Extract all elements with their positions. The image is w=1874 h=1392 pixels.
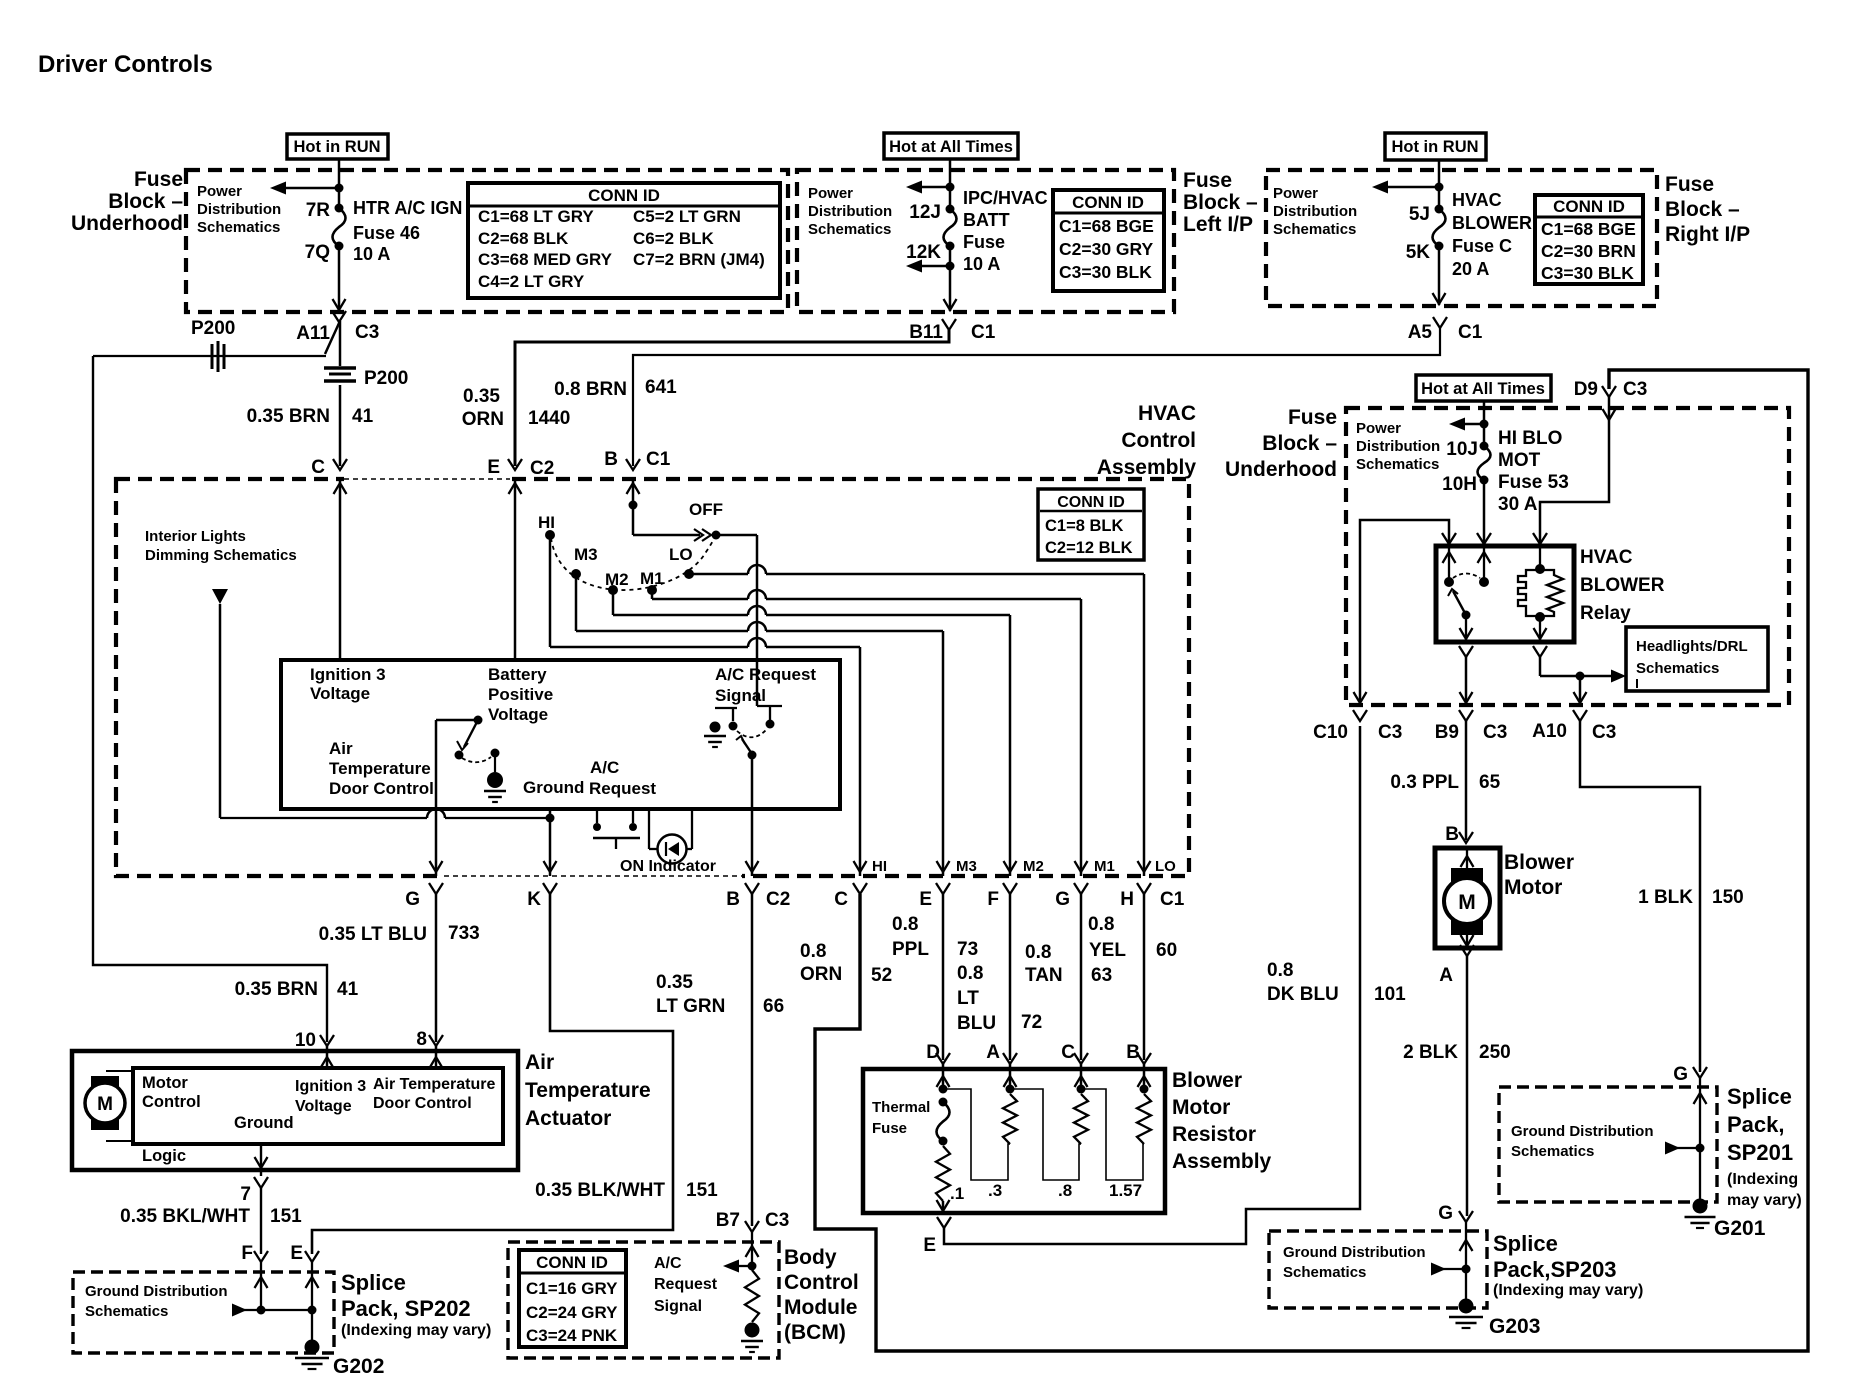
svg-text:G202: G202 — [333, 1355, 384, 1378]
svg-text:ORN: ORN — [800, 964, 842, 985]
svg-text:C3=24 PNK: C3=24 PNK — [526, 1326, 618, 1345]
label HVAC BLOWER Relay — [1580, 547, 1665, 624]
svg-text:Thermal: Thermal — [872, 1099, 930, 1116]
svg-text:0.35: 0.35 — [463, 386, 500, 407]
svg-text:Pack,: Pack, — [1727, 1112, 1785, 1137]
svg-text:PPL: PPL — [892, 939, 929, 960]
svg-text:Pack,SP203: Pack,SP203 — [1493, 1257, 1617, 1282]
wire arrow to power distribution (block 4) — [1449, 418, 1484, 431]
svg-text:Dimming Schematics: Dimming Schematics — [145, 547, 297, 564]
svg-text:MOT: MOT — [1498, 450, 1541, 471]
svg-text:0.8: 0.8 — [957, 963, 983, 984]
label Ground (actuator) — [234, 1114, 294, 1132]
svg-text:Schematics: Schematics — [1636, 660, 1719, 677]
label OFF — [689, 500, 723, 519]
svg-text:Logic: Logic — [142, 1147, 186, 1165]
svg-text:B: B — [604, 449, 618, 470]
reference Power Distribution Schematics (block 3) — [1273, 185, 1357, 238]
wire fuse C output to A5 — [1433, 246, 1446, 305]
label Air Temperature Actuator — [525, 1051, 651, 1130]
svg-text:Body: Body — [784, 1246, 837, 1269]
svg-text:Request: Request — [589, 779, 656, 798]
pin 12J — [909, 202, 954, 223]
svg-text:Distribution: Distribution — [1356, 438, 1440, 455]
svg-text:A/C: A/C — [590, 758, 619, 777]
svg-text:5K: 5K — [1406, 242, 1431, 263]
wire 150 BLK A10 to SP201 — [1580, 721, 1700, 1072]
svg-text:7Q: 7Q — [305, 242, 330, 263]
air temperature actuator inner box — [133, 1068, 503, 1144]
svg-text:8: 8 — [416, 1029, 427, 1050]
air temperature actuator outer box — [72, 1051, 518, 1170]
svg-text:C1=68 BGE: C1=68 BGE — [1059, 216, 1154, 236]
svg-text:0.35 BLK/WHT: 0.35 BLK/WHT — [535, 1180, 665, 1201]
svg-text:ORN: ORN — [462, 409, 504, 430]
connector blower motor pin B — [1445, 824, 1473, 845]
svg-text:CONN ID: CONN ID — [536, 1253, 608, 1272]
svg-text:10 A: 10 A — [353, 244, 390, 264]
label Fuse Block - Right I/P — [1665, 173, 1750, 246]
label 0.35 LT BLU 733 — [319, 923, 480, 945]
splice pack SP202 dashed box — [73, 1272, 334, 1353]
connector pin B / C1 label — [604, 449, 670, 470]
power label box Hot at All Times (relay) — [1416, 375, 1551, 401]
label Fuse Block - Underhood (relay) — [1225, 406, 1337, 481]
svg-text:C1=68 LT GRY: C1=68 LT GRY — [478, 207, 594, 226]
svg-text:C3=68 MED GRY: C3=68 MED GRY — [478, 250, 613, 269]
label Logic — [142, 1147, 186, 1165]
svg-text:C2: C2 — [766, 889, 790, 910]
svg-text:Fuse: Fuse — [1183, 169, 1232, 192]
label 0.35 BKL/WHT 151 — [120, 1206, 302, 1227]
wire arrow to power distribution upper (block 2) — [906, 181, 950, 194]
svg-text:M: M — [1458, 891, 1476, 914]
wire pin K ground — [544, 809, 557, 876]
wire arrow to power distribution (block 1) — [270, 182, 339, 195]
wire series link A-C — [1010, 1089, 1081, 1180]
wire M2 contact to pin C1-F — [613, 590, 1017, 876]
hvac module inner box — [281, 660, 840, 809]
svg-text:A: A — [986, 1042, 1000, 1063]
pin 7R — [306, 200, 344, 221]
svg-text:SP201: SP201 — [1727, 1140, 1793, 1165]
svg-text:C2=24 GRY: C2=24 GRY — [526, 1303, 618, 1322]
svg-text:M3: M3 — [574, 545, 598, 564]
wire 52 ORN pin C to blower relay D9 loop — [815, 370, 1808, 1351]
contact M2 — [605, 570, 629, 595]
air temp switch ground contact — [484, 749, 506, 803]
connector B11 / C1 — [909, 319, 996, 343]
svg-text:C6=2 BLK: C6=2 BLK — [633, 229, 714, 248]
svg-text:G: G — [1438, 1203, 1453, 1224]
power label box Hot in RUN (fuse block underhood) — [287, 134, 388, 159]
svg-text:C10: C10 — [1313, 722, 1348, 743]
svg-text:G: G — [1055, 889, 1070, 910]
label Splice Pack SP203 — [1493, 1231, 1643, 1299]
connector resistor assembly pin C — [1061, 1042, 1088, 1064]
svg-text:641: 641 — [645, 377, 677, 398]
wire diagonal A11 branch — [325, 321, 340, 354]
svg-text:M3: M3 — [956, 858, 977, 875]
svg-text:E: E — [923, 1235, 936, 1256]
svg-text:Splice: Splice — [1493, 1231, 1558, 1256]
svg-text:A10: A10 — [1532, 721, 1567, 742]
svg-text:0.8: 0.8 — [800, 941, 826, 962]
pin 10J — [1446, 439, 1488, 460]
svg-text:HVAC: HVAC — [1138, 402, 1196, 425]
svg-text:C3: C3 — [1483, 722, 1507, 743]
wire pin G air temp door control — [430, 720, 443, 876]
fuse F46 HTR A/C IGN 10A element — [333, 208, 346, 246]
splice SP203 bus — [1431, 1263, 1471, 1276]
svg-text:Fuse: Fuse — [963, 232, 1005, 252]
label 1 BLK 150 — [1638, 887, 1744, 908]
reference Ground Distribution Schematics (SP203) — [1283, 1244, 1425, 1281]
svg-text:Hot at All Times: Hot at All Times — [1421, 380, 1545, 398]
svg-text:Block –: Block – — [108, 190, 183, 213]
svg-text:Ignition 3: Ignition 3 — [310, 665, 386, 684]
contact M3 — [571, 545, 598, 579]
fuse HVAC BLOWER Fuse C 20A element — [1433, 209, 1446, 246]
svg-text:BATT: BATT — [963, 210, 1010, 230]
label HI at connector — [872, 858, 887, 875]
svg-text:Ignition 3: Ignition 3 — [295, 1078, 366, 1095]
label IPC/HVAC BATT Fuse 10 A — [963, 188, 1048, 274]
node junction dot feed (block 4) — [1480, 420, 1489, 429]
svg-text:G203: G203 — [1489, 1315, 1540, 1338]
svg-text:.8: .8 — [1058, 1181, 1072, 1200]
svg-text:(Indexing may vary): (Indexing may vary) — [341, 1322, 491, 1339]
svg-text:Distribution: Distribution — [197, 201, 281, 218]
svg-text:C2=12 BLK: C2=12 BLK — [1045, 539, 1133, 557]
connector blower motor pin A — [1439, 945, 1474, 986]
reference Power Distribution Schematics (block 1) — [197, 183, 281, 236]
svg-text:C1: C1 — [971, 322, 996, 343]
svg-text:C3: C3 — [1623, 379, 1647, 400]
connector actuator pin 8 — [416, 1029, 443, 1068]
label Splice Pack SP201 — [1727, 1084, 1802, 1209]
svg-text:Voltage: Voltage — [488, 705, 548, 724]
svg-text:HI BLO: HI BLO — [1498, 428, 1562, 449]
label Fuse Block - Underhood — [71, 168, 183, 235]
contact M1 — [640, 569, 664, 595]
svg-text:2 BLK: 2 BLK — [1403, 1042, 1458, 1063]
svg-text:0.8: 0.8 — [1267, 960, 1293, 981]
svg-text:Schematics: Schematics — [85, 1303, 168, 1320]
svg-text:IPC/HVAC: IPC/HVAC — [963, 188, 1048, 208]
connector relay pin common — [1477, 533, 1491, 544]
svg-text:30 A: 30 A — [1498, 494, 1538, 515]
splice SP201 bus — [1665, 1142, 1705, 1155]
svg-text:A5: A5 — [1408, 322, 1433, 343]
node junction dot BCM input — [748, 1262, 757, 1271]
svg-text:C: C — [311, 457, 325, 478]
ground BCM internal — [741, 1323, 763, 1353]
svg-text:Distribution: Distribution — [808, 203, 892, 220]
svg-text:HI: HI — [872, 858, 887, 875]
inline connector P200 (horizontal wire) — [191, 318, 235, 372]
svg-text:Control: Control — [1121, 429, 1196, 452]
svg-text:Block –: Block – — [1262, 432, 1337, 455]
wire M3 contact to pin C1-E — [576, 574, 950, 876]
svg-text:Door Control: Door Control — [373, 1095, 472, 1112]
svg-text:41: 41 — [337, 979, 359, 1000]
resistor .1 — [936, 1146, 964, 1203]
wire 151 BKL/WHT to splice SP202 F — [260, 1188, 262, 1254]
svg-text:Headlights/DRL: Headlights/DRL — [1636, 638, 1748, 655]
wire 66 LT GRN pin B to BCM B7 — [751, 894, 754, 1226]
connector B9 / C3 — [1435, 710, 1508, 743]
label Body Control Module (BCM) — [784, 1246, 859, 1344]
wire relay coil low to A10 and headlights — [1540, 657, 1611, 705]
svg-text:Ground Distribution: Ground Distribution — [1511, 1123, 1653, 1140]
svg-text:B9: B9 — [1435, 722, 1459, 743]
svg-text:F: F — [987, 889, 999, 910]
svg-text:Schematics: Schematics — [1356, 456, 1439, 473]
svg-text:CONN ID: CONN ID — [1072, 193, 1144, 212]
hvac control assembly dashed box — [116, 479, 1189, 876]
wire pin C inside — [1075, 1064, 1088, 1094]
label Motor Control — [142, 1074, 201, 1111]
svg-text:C1=16 GRY: C1=16 GRY — [526, 1279, 618, 1298]
svg-text:Temperature: Temperature — [525, 1079, 651, 1102]
wire pin B ac request signal down — [746, 755, 759, 876]
off-page triangle interior lights dimming — [212, 589, 228, 604]
svg-text:0.3 PPL: 0.3 PPL — [1390, 772, 1459, 793]
label 0.35 BRN 41 — [247, 406, 374, 427]
wire 73 PPL pin E to resistor D — [942, 894, 945, 1060]
svg-text:Underhood: Underhood — [1225, 458, 1337, 481]
label A/C Request pin — [589, 758, 656, 798]
connector SP201 pin G — [1673, 1064, 1707, 1085]
svg-text:H: H — [1120, 889, 1134, 910]
wire arrow BCM internal — [723, 1260, 752, 1273]
label Ground pin — [523, 778, 584, 797]
power label box Hot in RUN (right I/P) — [1385, 133, 1486, 160]
label 0.8 BRN 641 — [554, 377, 677, 400]
actuator motor M — [85, 1071, 133, 1141]
svg-text:BLOWER: BLOWER — [1580, 575, 1665, 596]
label 0.8 DK BLU 101 — [1267, 960, 1406, 1005]
wire D9 to relay coil — [1540, 397, 1616, 546]
wire B7 into BCM — [746, 1232, 759, 1266]
svg-text:65: 65 — [1479, 772, 1501, 793]
svg-text:D9: D9 — [1574, 379, 1598, 400]
wire pin G into SP203 — [1460, 1222, 1473, 1299]
pin 7Q — [305, 242, 344, 264]
node junction dot feed (block 2) — [946, 183, 955, 192]
wire series link D-A — [943, 1089, 1010, 1180]
svg-text:250: 250 — [1479, 1042, 1511, 1063]
svg-text:CONN ID: CONN ID — [588, 186, 660, 205]
label HI BLO MOT Fuse 53 30 A — [1498, 428, 1569, 515]
svg-text:BLOWER: BLOWER — [1452, 213, 1532, 233]
svg-text:63: 63 — [1091, 965, 1112, 986]
connector relay coil low — [1533, 646, 1547, 657]
relay armature — [1448, 589, 1471, 620]
label Splice Pack SP202 — [341, 1270, 491, 1339]
svg-text:(BCM): (BCM) — [784, 1321, 846, 1344]
svg-text:C2=30 GRY: C2=30 GRY — [1059, 239, 1154, 259]
connector SP202 pin E — [290, 1243, 319, 1264]
svg-text:may vary): may vary) — [1727, 1192, 1802, 1209]
svg-text:P200: P200 — [191, 318, 235, 339]
svg-text:CONN ID: CONN ID — [1057, 494, 1125, 511]
svg-text:60: 60 — [1156, 940, 1177, 961]
connector resistor assembly pin E — [923, 1217, 951, 1256]
wire relay NC to C10 drop — [1354, 520, 1450, 705]
svg-text:G201: G201 — [1714, 1217, 1766, 1240]
svg-text:Battery: Battery — [488, 665, 547, 684]
fuse block left I/P dashed box — [797, 170, 1174, 312]
svg-text:12J: 12J — [909, 202, 941, 223]
svg-text:Splice: Splice — [341, 1270, 406, 1295]
splice pack SP201 dashed box — [1499, 1087, 1717, 1202]
label 0.35 BLK/WHT 151 — [535, 1180, 718, 1201]
connector SP203 pin G — [1438, 1203, 1473, 1224]
body control module dashed box — [508, 1242, 779, 1358]
svg-text:Power: Power — [1356, 420, 1401, 437]
wire fuse output to B11 — [944, 246, 957, 311]
connector A5 / C1 — [1408, 317, 1483, 343]
svg-text:Control: Control — [784, 1271, 859, 1294]
label M1 at connector — [1094, 858, 1115, 875]
label 0.3 PPL 65 — [1390, 772, 1500, 793]
wire pin B blower switch feed — [627, 480, 640, 535]
svg-text:LO: LO — [1155, 858, 1176, 875]
node junction dot feed fuse 46 — [335, 184, 344, 193]
svg-text:0.35: 0.35 — [656, 972, 693, 993]
svg-text:Air: Air — [525, 1051, 554, 1074]
svg-text:BLU: BLU — [957, 1013, 996, 1034]
connector pin E / C2 label — [487, 457, 554, 479]
svg-text:Fuse: Fuse — [134, 168, 183, 191]
wire HI contact to pin C1-C — [550, 535, 867, 876]
svg-text:66: 66 — [763, 996, 784, 1017]
headlights DRL schematics box — [1626, 627, 1768, 691]
wire pin A inside — [1004, 1064, 1017, 1094]
label M3 at connector — [956, 858, 977, 875]
fuse block underhood dashed box — [186, 170, 788, 312]
svg-text:72: 72 — [1021, 1012, 1042, 1033]
svg-text:C5=2 LT GRN: C5=2 LT GRN — [633, 207, 741, 226]
svg-text:Schematics: Schematics — [808, 221, 891, 238]
svg-text:LO: LO — [669, 545, 693, 564]
blower switch feed to OFF contact — [633, 529, 721, 541]
svg-text:C3=30 BLK: C3=30 BLK — [1059, 262, 1152, 282]
pin 12K — [906, 242, 954, 264]
connector actuator pin 10 — [295, 1030, 334, 1068]
svg-text:C: C — [834, 889, 848, 910]
svg-text:151: 151 — [270, 1206, 302, 1227]
svg-text:0.35 BKL/WHT: 0.35 BKL/WHT — [120, 1206, 250, 1227]
svg-text:TAN: TAN — [1025, 965, 1063, 986]
contact LO — [669, 545, 694, 579]
svg-text:0.35 LT BLU: 0.35 LT BLU — [319, 924, 427, 945]
svg-text:Fuse: Fuse — [872, 1120, 907, 1137]
svg-text:10J: 10J — [1446, 439, 1478, 460]
wire fuse 53 to relay common — [1483, 480, 1486, 546]
hvac blower relay box — [1436, 546, 1574, 642]
svg-text:Power: Power — [808, 185, 853, 202]
svg-text:B: B — [1126, 1042, 1140, 1063]
svg-text:10 A: 10 A — [963, 254, 1000, 274]
label A/C Request Signal (BCM) — [654, 1255, 718, 1315]
svg-text:(Indexing may vary): (Indexing may vary) — [1493, 1282, 1643, 1299]
wire 101 DK BLU resistor E to relay C10 — [944, 726, 1360, 1244]
svg-text:Voltage: Voltage — [310, 684, 370, 703]
svg-text:Fuse: Fuse — [1288, 406, 1337, 429]
label 0.35 BRN 41 (lower) — [235, 979, 359, 1000]
svg-text:B11: B11 — [909, 322, 943, 343]
ac request momentary contacts — [593, 809, 640, 849]
svg-text:0.35 BRN: 0.35 BRN — [247, 406, 330, 427]
svg-text:E: E — [290, 1243, 303, 1264]
svg-text:C1=8 BLK: C1=8 BLK — [1045, 517, 1123, 535]
svg-text:A: A — [1439, 965, 1453, 986]
svg-text:Door Control: Door Control — [329, 779, 434, 798]
connector A11 / C3 — [296, 311, 379, 344]
svg-text:Assembly: Assembly — [1097, 456, 1197, 479]
reference Interior Lights Dimming Schematics — [145, 528, 297, 564]
svg-text:P200: P200 — [364, 368, 408, 389]
wire to P200 horizontal run — [93, 355, 326, 357]
svg-text:Driver Controls: Driver Controls — [38, 51, 213, 78]
connector pin C label — [311, 457, 347, 478]
svg-text:Ground Distribution: Ground Distribution — [1283, 1244, 1425, 1261]
svg-text:151: 151 — [686, 1180, 718, 1201]
label 2 BLK 250 — [1403, 1042, 1511, 1063]
reference Power Distribution Schematics (block 2) — [808, 185, 892, 238]
label 0.35 LT GRN 66 — [656, 972, 784, 1017]
wire pin G into SP201 — [1694, 1078, 1707, 1199]
svg-text:M1: M1 — [1094, 858, 1115, 875]
svg-text:1.57: 1.57 — [1109, 1181, 1142, 1200]
wire pin E battery positive into module — [509, 480, 522, 660]
connector resistor assembly pin A — [986, 1042, 1017, 1064]
label HVAC BLOWER Fuse C 20 A — [1452, 190, 1532, 279]
wire 65 PPL B9 to blower motor — [1465, 721, 1468, 840]
svg-text:73: 73 — [957, 939, 978, 960]
svg-text:Relay: Relay — [1580, 603, 1631, 624]
wire dimming feedback horizontal with hop — [220, 809, 550, 818]
svg-text:Positive: Positive — [488, 685, 553, 704]
svg-text:0.8: 0.8 — [892, 914, 918, 935]
inline connector P200 (vertical wire) — [324, 368, 408, 389]
svg-text:150: 150 — [1712, 887, 1744, 908]
svg-text:Signal: Signal — [715, 686, 766, 705]
svg-text:Air: Air — [329, 739, 353, 758]
svg-text:Left I/P: Left I/P — [1183, 213, 1253, 236]
conn id table (block 2) — [1053, 190, 1164, 291]
svg-text:12K: 12K — [906, 242, 941, 263]
svg-text:YEL: YEL — [1089, 940, 1126, 961]
node junction dot feed (block 3) — [1435, 183, 1444, 192]
pin 5K — [1406, 242, 1444, 264]
conn id table (block 3) — [1535, 195, 1643, 284]
svg-text:Schematics: Schematics — [1511, 1143, 1594, 1160]
resistor .3 — [988, 1094, 1017, 1200]
blower motor symbol — [1444, 848, 1490, 948]
svg-text:Hot at All Times: Hot at All Times — [889, 138, 1013, 156]
wire 72 LT BLU pin F to resistor A — [1009, 894, 1012, 1060]
wire LO contact to pin C1-H — [689, 565, 1151, 876]
label Air Temperature Door Control — [329, 739, 434, 798]
wire arrow to headlights DRL schematics — [1611, 670, 1626, 683]
svg-text:C1: C1 — [646, 449, 671, 470]
svg-text:0.35 BRN: 0.35 BRN — [235, 979, 318, 1000]
reference Ground Distribution Schematics (SP202) — [85, 1283, 227, 1320]
